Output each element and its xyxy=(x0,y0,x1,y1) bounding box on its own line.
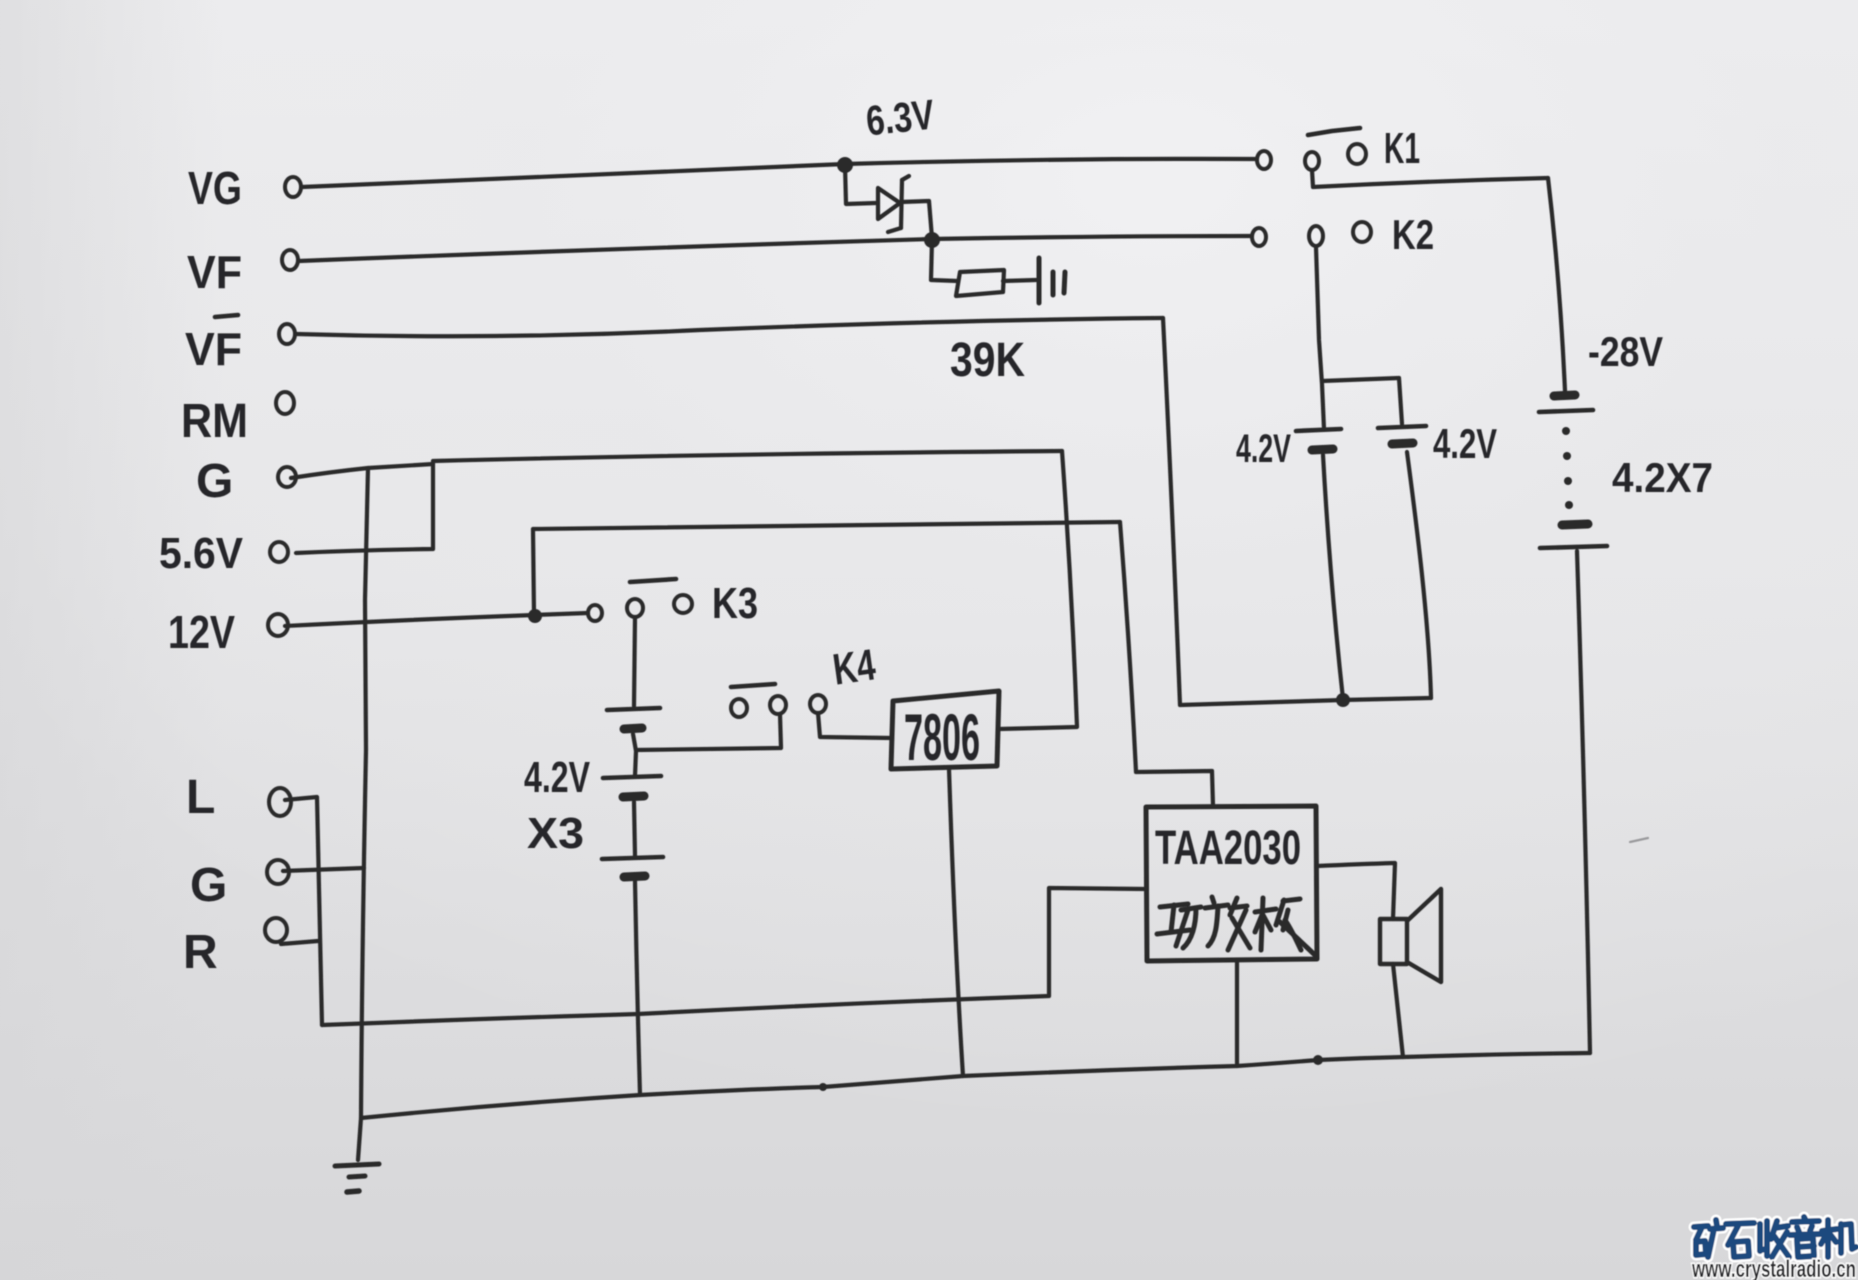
svg-text:4.2V: 4.2V xyxy=(524,753,590,802)
svg-text:4.2V: 4.2V xyxy=(1236,427,1291,471)
svg-text:7806: 7806 xyxy=(904,700,980,774)
svg-text:K2: K2 xyxy=(1392,211,1434,258)
svg-text:6.3V: 6.3V xyxy=(864,91,937,145)
svg-text:G: G xyxy=(196,455,233,508)
svg-text:R: R xyxy=(183,926,218,979)
svg-text:4.2X7: 4.2X7 xyxy=(1612,454,1713,501)
svg-text:L: L xyxy=(186,771,215,824)
svg-text:39K: 39K xyxy=(950,334,1025,387)
svg-text:TAA2030: TAA2030 xyxy=(1155,822,1301,875)
svg-text:www.crystalradio.cn: www.crystalradio.cn xyxy=(1691,1256,1856,1280)
svg-text:K4: K4 xyxy=(830,640,879,694)
svg-text:4.2V: 4.2V xyxy=(1433,420,1497,467)
svg-text:X3: X3 xyxy=(527,809,584,858)
svg-text:5.6V: 5.6V xyxy=(159,529,244,578)
svg-text:K3: K3 xyxy=(712,579,758,628)
svg-text:VF: VF xyxy=(185,323,242,375)
svg-text:12V: 12V xyxy=(168,606,235,658)
svg-text:G: G xyxy=(190,859,227,912)
svg-text:K1: K1 xyxy=(1384,124,1420,173)
svg-text:VF: VF xyxy=(187,246,242,298)
svg-text:RM: RM xyxy=(181,395,248,448)
svg-text:VG: VG xyxy=(188,162,242,214)
svg-text:-28V: -28V xyxy=(1588,328,1663,375)
